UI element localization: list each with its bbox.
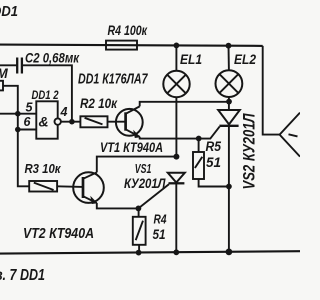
node pin6 junction xyxy=(15,127,21,133)
lamp EL2 xyxy=(228,46,230,71)
wire EL1 bottom to VS1 anode node xyxy=(175,97,177,156)
svg-text:R5: R5 xyxy=(206,139,222,154)
svg-text:КУ201Л: КУ201Л xyxy=(124,175,166,191)
svg-text:DD1 К176ЛА7: DD1 К176ЛА7 xyxy=(78,71,148,88)
node VS2 gate / R5 junction xyxy=(196,136,202,142)
wire R3 to VT2 base xyxy=(57,185,83,188)
svg-text:R3 10к: R3 10к xyxy=(25,161,62,176)
svg-text:C2 0,68мк: C2 0,68мк xyxy=(25,50,80,65)
VS2 gate wire xyxy=(199,127,220,139)
transistor VT2 KT940A xyxy=(73,172,104,203)
thyristor VS1 KU201L xyxy=(168,173,185,183)
wire VT2 collector to VS1 anode node xyxy=(97,157,177,173)
wire pin 6 input xyxy=(18,129,37,131)
svg-text:51: 51 xyxy=(153,227,166,242)
resistor R2 xyxy=(80,116,107,127)
wire bottom rail xyxy=(0,251,300,253)
node VS1 gate / R4 junction xyxy=(136,206,142,212)
svg-text:DD1: DD1 xyxy=(0,3,18,20)
gate DD1.2 (NAND) xyxy=(36,101,57,138)
node R4 bottom rail junction xyxy=(136,250,142,256)
node EL2/VS2/VT1-collector junction xyxy=(226,99,232,105)
lamp EL1 xyxy=(175,45,177,70)
svg-text:R4: R4 xyxy=(154,213,167,227)
svg-text:51: 51 xyxy=(206,155,221,170)
wire R2 to VT1 base xyxy=(108,121,126,123)
svg-text:VT2 КТ940А: VT2 КТ940А xyxy=(23,226,94,242)
VS1 gate wire xyxy=(138,184,169,208)
capacitor C2 xyxy=(0,64,17,66)
wire EL2 bottom to VS2 anode xyxy=(228,97,230,110)
inversion bubble pin 4 xyxy=(55,118,61,124)
wire C2 right plate to gate output node xyxy=(22,65,72,121)
wire pin 5 input from left edge xyxy=(0,113,36,115)
resistor R4 51 xyxy=(138,208,140,216)
svg-text:VT1 КТ940А: VT1 КТ940А xyxy=(100,139,163,155)
resistor R5 51 xyxy=(198,139,200,153)
svg-text:R2 10к: R2 10к xyxy=(80,95,118,111)
svg-text:DD1 2: DD1 2 xyxy=(32,88,59,102)
wire R5 bottom to VS2 cathode line xyxy=(199,179,229,187)
transistor VT1 KT940A xyxy=(116,109,143,136)
svg-text:М: М xyxy=(0,66,9,81)
svg-text:EL1: EL1 xyxy=(180,52,202,67)
svg-text:VS1: VS1 xyxy=(135,161,152,176)
svg-text:EL2: EL2 xyxy=(234,52,256,67)
node EL1 top rail junction xyxy=(174,43,180,49)
node pin5 junction xyxy=(15,111,21,117)
node C2/output junction xyxy=(69,119,75,125)
svg-text:6: 6 xyxy=(24,115,32,129)
svg-text:VS2 КУ201Л: VS2 КУ201Л xyxy=(240,113,259,189)
svg-text:R4 100к: R4 100к xyxy=(108,22,148,38)
node VS2 cathode rail junction xyxy=(226,249,233,256)
svg-text:5: 5 xyxy=(26,100,34,114)
wire VT1 collector to EL2/VS2 anode node xyxy=(140,102,229,107)
wire pin5 node down to pin6 node xyxy=(17,114,19,130)
wire VT1 emitter to VS2 gate node xyxy=(140,137,199,139)
svg-text:в. 7 DD1: в. 7 DD1 xyxy=(0,267,45,284)
wire gate output to R2 xyxy=(61,121,81,123)
wire pin6 node down to R3 xyxy=(18,130,29,187)
wire VT2 emitter to VS1 gate node xyxy=(97,203,139,208)
node VS1 cathode rail junction xyxy=(173,249,179,255)
resistor R1 (cut at left edge) xyxy=(0,81,3,91)
wire R1 to pin5 node xyxy=(3,86,18,114)
svg-text:4: 4 xyxy=(60,105,68,119)
wire right-side drop to mains arrow xyxy=(263,46,280,135)
connector arrow (to mains), cut at right edge xyxy=(280,113,300,157)
node EL2 top rail junction xyxy=(226,43,232,49)
thyristor VS2 KU201L xyxy=(218,110,240,124)
node R5/VS2 cathode junction xyxy=(226,184,232,190)
resistor R4 100k (in series with top rail) xyxy=(106,41,137,50)
resistor R3 10k xyxy=(29,181,57,192)
wire top supply rail xyxy=(0,45,263,46)
svg-text:&: & xyxy=(39,114,49,130)
wire VS2 cathode down to bottom rail xyxy=(228,126,230,252)
wire VS1 cathode down to bottom rail xyxy=(175,183,177,252)
node VS1 anode / VT2 collector junction xyxy=(173,154,179,160)
